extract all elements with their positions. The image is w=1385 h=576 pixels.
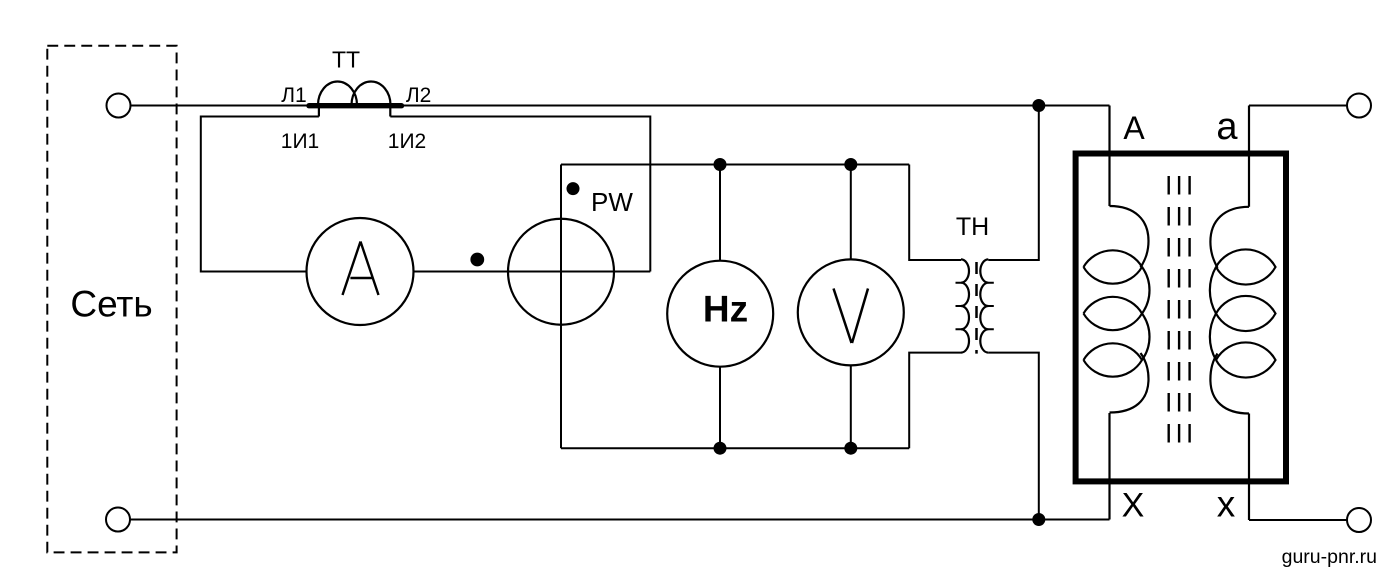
svg-text:Л2: Л2 bbox=[406, 84, 431, 107]
wire: main top line bbox=[131, 105, 1110, 107]
wire: 1И2 to right vertical bbox=[390, 117, 650, 272]
wire: main bottom line bbox=[130, 519, 1110, 521]
wire: voltage circuit right upper bbox=[909, 165, 961, 261]
wire: voltage circuit bottom line bbox=[561, 447, 909, 449]
svg-text:Сеть: Сеть bbox=[70, 284, 152, 325]
wire: Hz stubs bbox=[719, 165, 721, 449]
secondary winding a-x bbox=[1210, 207, 1249, 268]
ТН right winding cusp ticks bbox=[988, 283, 994, 330]
secondary exit arc bbox=[1210, 354, 1249, 414]
current transformer TT primary bar bbox=[309, 103, 402, 108]
svg-text:Х: Х bbox=[1122, 487, 1145, 525]
wire: voltage circuit right lower bbox=[909, 353, 961, 449]
voltmeter V glyph bbox=[834, 289, 869, 344]
wire: ТН primary top to main line bbox=[988, 106, 1039, 261]
primary lens 1 bbox=[1084, 250, 1143, 283]
wattmeter PW circle bbox=[508, 219, 614, 325]
wire: bottom-right to terminal bbox=[1249, 519, 1347, 521]
junction bottom Hz bbox=[714, 442, 727, 455]
secondary lens 1 bbox=[1216, 249, 1276, 284]
svg-text:1И2: 1И2 bbox=[388, 130, 426, 153]
wire: lead x bbox=[1248, 414, 1250, 521]
secondary lens 2 bbox=[1216, 296, 1276, 331]
wire: lead a bbox=[1248, 106, 1250, 207]
junction main bottom / ТН bbox=[1032, 513, 1045, 526]
terminal bottom-left bbox=[106, 508, 130, 532]
current transformer TT winding humps bbox=[318, 81, 391, 105]
svg-text:PW: PW bbox=[591, 187, 633, 217]
primary lens 2 bbox=[1084, 297, 1143, 330]
terminal top-right bbox=[1347, 94, 1371, 118]
power transformer core dashed lines bbox=[1169, 176, 1190, 443]
frequency meter Hz circle bbox=[667, 261, 773, 367]
wire: voltage circuit top line bbox=[561, 164, 909, 166]
wire: V stubs bbox=[850, 165, 852, 449]
voltage transformer ТН right winding bbox=[980, 259, 988, 352]
wire: top-right to terminal bbox=[1249, 105, 1347, 107]
svg-text:а: а bbox=[1216, 106, 1238, 148]
secondary lens 3 bbox=[1216, 342, 1276, 377]
wattmeter current polarity dot bbox=[470, 253, 484, 267]
mains dashed box Сеть bbox=[47, 46, 176, 553]
voltage transformer ТН left winding bbox=[961, 259, 969, 352]
terminal top-left bbox=[107, 94, 131, 118]
primary side arc 2 bbox=[1142, 314, 1149, 361]
svg-text:1И1: 1И1 bbox=[281, 130, 319, 153]
wire: lead X bbox=[1108, 413, 1110, 520]
ammeter A glyph bbox=[343, 242, 379, 296]
wire: lead A bbox=[1108, 106, 1110, 207]
svg-text:ТТ: ТТ bbox=[332, 47, 360, 73]
junction top Hz bbox=[714, 158, 727, 171]
svg-text:Л1: Л1 bbox=[281, 84, 306, 107]
primary side arc 1 bbox=[1142, 267, 1149, 314]
voltmeter V circle bbox=[798, 259, 904, 365]
svg-text:х: х bbox=[1217, 484, 1236, 525]
wire: TT secondary drop left bbox=[318, 107, 320, 117]
wire: TT secondary drop right bbox=[389, 107, 391, 117]
svg-text:guru-pnr.ru: guru-pnr.ru bbox=[1282, 546, 1377, 568]
svg-text:А: А bbox=[1123, 110, 1145, 146]
junction main top / ТН bbox=[1032, 99, 1045, 112]
wire: ТН primary bottom to main line bbox=[988, 353, 1039, 520]
wire: 1И1 to left vertical bbox=[201, 117, 319, 272]
ammeter A circle bbox=[307, 218, 414, 325]
terminal bottom-right bbox=[1347, 508, 1371, 532]
secondary side arc 2 bbox=[1210, 314, 1216, 361]
ТН left winding cusp ticks bbox=[956, 283, 962, 330]
ТН core dashed line bbox=[975, 262, 978, 354]
power transformer box bbox=[1076, 154, 1286, 482]
secondary side arc 1 bbox=[1210, 267, 1216, 314]
junction bottom V bbox=[844, 442, 857, 455]
primary winding A-X bbox=[1110, 206, 1149, 268]
wattmeter PW vertical wire bbox=[560, 165, 562, 449]
primary exit arc bbox=[1110, 353, 1149, 413]
wattmeter voltage polarity dot bbox=[567, 182, 580, 195]
junction top V bbox=[844, 158, 857, 171]
svg-text:ТН: ТН bbox=[956, 213, 989, 241]
primary lens 3 bbox=[1084, 343, 1143, 376]
wire: ammeter to PW to corner bbox=[414, 271, 651, 273]
svg-text:Hz: Hz bbox=[703, 289, 748, 330]
